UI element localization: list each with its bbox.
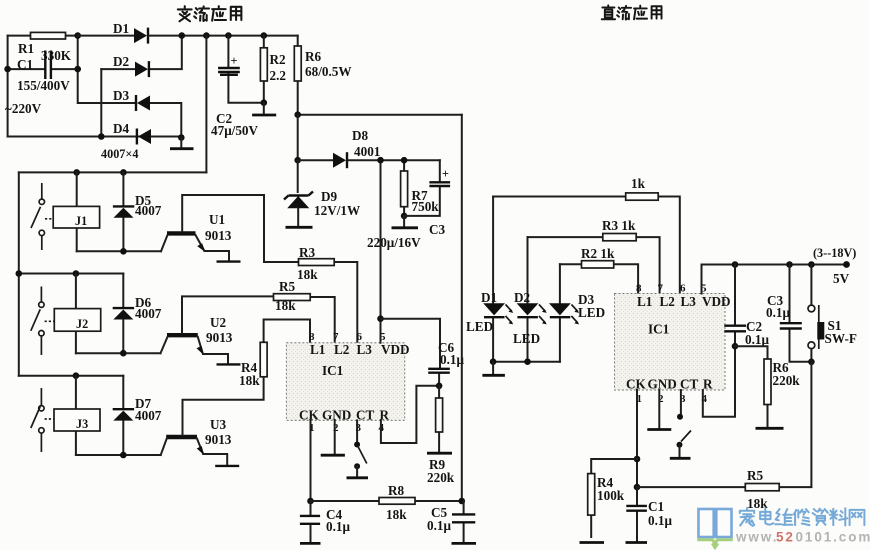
capacitor C5: [427, 501, 475, 542]
svg-text:C1: C1: [648, 499, 664, 514]
wire right vertical (left circuit): [461, 115, 463, 501]
wire J1 row base line: [77, 250, 161, 252]
wire node A vertical (R1/C1 right to D3 row): [78, 36, 135, 103]
svg-text:4007: 4007: [135, 408, 162, 423]
svg-text:220k: 220k: [773, 373, 801, 388]
wire bottom input row to D4: [8, 136, 136, 138]
svg-text:U2: U2: [210, 315, 227, 330]
ground (R2/C2): [252, 99, 276, 115]
resistor R1: [8, 32, 78, 63]
svg-text:9013: 9013: [206, 330, 233, 345]
ground (R9): [427, 452, 452, 455]
svg-text:5V: 5V: [833, 271, 850, 286]
wire relay rail 2: [19, 273, 124, 275]
svg-text:J2: J2: [76, 317, 88, 331]
resistor R2 1k (right): [560, 246, 638, 294]
svg-text:4001: 4001: [354, 144, 380, 159]
ground (R4 right): [580, 541, 605, 544]
resistor R3: [297, 245, 357, 343]
svg-text:CK: CK: [299, 408, 320, 423]
svg-text:750k: 750k: [412, 199, 440, 214]
svg-text:IC1: IC1: [322, 363, 343, 378]
svg-text:D1: D1: [113, 21, 129, 36]
capacitor C4: [300, 501, 351, 542]
svg-text:R: R: [703, 377, 713, 392]
svg-text:D9: D9: [321, 189, 338, 204]
switch S1 SW-F: [808, 265, 857, 362]
svg-text:R1: R1: [18, 41, 34, 56]
resistor 1k (top, D1 to L3): [493, 176, 680, 294]
LED D2 (right): [513, 237, 547, 362]
resistor R4: [239, 320, 310, 389]
svg-text:L3: L3: [357, 342, 373, 357]
svg-text:+: +: [442, 167, 449, 181]
svg-text:LED: LED: [578, 305, 605, 320]
svg-text:0.1μ: 0.1μ: [427, 518, 451, 533]
svg-text:J3: J3: [76, 417, 88, 431]
watermark url www.520101.com: [735, 530, 870, 545]
wire relay rail 3: [19, 375, 124, 377]
LED D3 (right): [549, 264, 605, 361]
svg-text:CT: CT: [680, 377, 699, 392]
wire left input vertical: [7, 36, 9, 137]
svg-text:R5: R5: [279, 279, 296, 294]
diode D6: [113, 274, 162, 354]
wire pin 4 R loop (left IC): [381, 386, 439, 443]
transistor U2: [161, 296, 274, 364]
svg-text:IC1: IC1: [648, 322, 669, 337]
svg-text:R2: R2: [270, 52, 287, 67]
watermark text 家电维修资料网: [740, 508, 865, 526]
title AC application 交流应用: [178, 6, 242, 21]
svg-text:12V/1W: 12V/1W: [314, 203, 360, 218]
capacitor C2 electrolytic: [211, 36, 264, 138]
svg-text:0101.com: 0101.com: [796, 530, 870, 545]
svg-text:R3: R3: [299, 245, 316, 260]
diode D2: [101, 36, 182, 78]
svg-text:4007: 4007: [135, 203, 162, 218]
svg-text:R5: R5: [747, 468, 764, 483]
svg-text:L2: L2: [334, 342, 350, 357]
svg-text:0.1μ: 0.1μ: [326, 519, 350, 534]
svg-text:(3--18V): (3--18V): [813, 246, 856, 260]
svg-text:6: 6: [680, 283, 686, 295]
ground (R7): [392, 213, 419, 228]
resistor R4 100k (right): [588, 459, 637, 537]
svg-text:LED: LED: [466, 319, 493, 334]
title DC application 直流应用: [602, 5, 662, 19]
svg-text:D8: D8: [352, 128, 369, 143]
svg-text:9013: 9013: [205, 432, 232, 447]
wire pin 1 CK down (left IC): [310, 420, 312, 501]
switch contact pin3 CT (left IC): [347, 420, 369, 477]
diode D1: [78, 21, 148, 44]
wire top rail: [149, 35, 298, 37]
node (3--18V) terminal: [813, 246, 856, 286]
transistor U1: [161, 195, 299, 262]
svg-text:www.: www.: [735, 530, 778, 545]
resistor R9: [427, 386, 455, 485]
svg-text:2.2: 2.2: [270, 68, 287, 83]
svg-text:VDD: VDD: [702, 294, 731, 309]
transistor U3: [161, 377, 264, 466]
capacitor C2 (right): [724, 265, 769, 348]
svg-text:68/0.5W: 68/0.5W: [305, 64, 352, 79]
svg-text:18k: 18k: [239, 373, 260, 388]
capacitor C1 (right): [626, 487, 672, 541]
switch contact J1: [31, 183, 54, 250]
svg-text:R3 1k: R3 1k: [602, 218, 636, 233]
svg-text:U3: U3: [210, 417, 227, 432]
svg-text:R2 1k: R2 1k: [581, 246, 615, 261]
svg-text:C1: C1: [17, 57, 33, 72]
wire pin 1 CK down (right IC): [636, 390, 638, 505]
capacitor C6: [381, 319, 465, 386]
zener D9: [284, 160, 360, 227]
svg-text:52: 52: [776, 530, 795, 545]
svg-text:0.1μ: 0.1μ: [745, 332, 769, 347]
wire pin 4 R loop (right IC): [703, 346, 735, 417]
capacitor C3 (right): [766, 265, 811, 362]
resistor R7: [401, 157, 440, 216]
wire VDD pin5 (right IC): [701, 265, 703, 294]
svg-text:100k: 100k: [597, 488, 625, 503]
diode D5: [113, 172, 162, 251]
svg-text:0.1μ: 0.1μ: [766, 305, 790, 320]
svg-text:18k: 18k: [386, 507, 407, 522]
ground (C4): [300, 542, 321, 545]
ground (C5): [452, 542, 477, 545]
ground (LED bus): [482, 362, 505, 376]
node A junctions: [74, 32, 81, 39]
switch contact pin3 CT (right IC): [670, 390, 691, 458]
LED D1 (right): [466, 197, 513, 362]
resistor R6: [294, 36, 351, 115]
diode D7: [113, 376, 162, 455]
watermark book icon: [697, 509, 733, 548]
diode D3: [113, 88, 181, 138]
svg-text:C3: C3: [429, 222, 446, 237]
resistor R5: [274, 279, 335, 343]
op-amp U2 IC1 box (right): [615, 283, 731, 406]
resistor R6 (right): [735, 346, 800, 427]
svg-text:D1: D1: [481, 290, 497, 305]
op-amp U1 IC1 box (left): [286, 331, 409, 434]
svg-text:0.1μ: 0.1μ: [648, 513, 672, 528]
svg-text:L2: L2: [660, 294, 676, 309]
svg-text:R6: R6: [305, 49, 322, 64]
wire node B vertical (D2 anode to D4 row): [100, 69, 102, 136]
svg-text:18k: 18k: [297, 267, 318, 282]
switch contact J2: [31, 287, 54, 356]
wire VDD pin 5 (left IC): [380, 160, 382, 343]
svg-text:220k: 220k: [427, 470, 455, 485]
wire supply rail (right): [702, 264, 847, 266]
svg-text:J1: J1: [75, 214, 87, 228]
resistor R2: [260, 36, 286, 103]
ground (R6 right): [756, 427, 784, 430]
svg-text:R8: R8: [388, 483, 405, 498]
capacitor C1: [5, 51, 78, 117]
svg-text:D2: D2: [514, 290, 531, 305]
svg-text:+: +: [231, 54, 238, 68]
svg-text:~220V: ~220V: [5, 101, 42, 116]
ground (bridge D3/D4): [170, 134, 194, 149]
svg-text:8: 8: [636, 283, 642, 295]
svg-text:7: 7: [658, 283, 664, 295]
svg-text:1k: 1k: [631, 176, 646, 191]
svg-text:47μ/50V: 47μ/50V: [211, 123, 259, 138]
capacitor C3 electrolytic: [367, 160, 450, 250]
svg-text:VDD: VDD: [381, 342, 410, 357]
wire D8 node vertical: [297, 115, 299, 161]
resistor R5 18k (right): [637, 468, 811, 511]
svg-text:L3: L3: [681, 294, 697, 309]
wire J2 row base line: [76, 352, 161, 354]
svg-text:D3: D3: [113, 88, 130, 103]
relay J3: [54, 376, 100, 455]
switch contact J3: [31, 388, 54, 452]
diode D4: [101, 121, 181, 161]
wire bridge output vertical to relay rail: [205, 36, 207, 173]
relay J2: [54, 274, 100, 354]
wire J3 row base line: [76, 454, 161, 456]
wire pin 2 GND + ground (right IC): [647, 390, 671, 430]
svg-text:4007: 4007: [135, 306, 162, 321]
svg-text:18k: 18k: [275, 298, 296, 313]
svg-text:220μ/16V: 220μ/16V: [367, 235, 421, 250]
resistor R3 1k (right): [528, 218, 660, 294]
diode D8: [298, 128, 440, 168]
ground (C1 right): [626, 541, 648, 544]
svg-text:CT: CT: [356, 408, 375, 423]
svg-text:4007×4: 4007×4: [101, 147, 138, 161]
wire LED cathode bus: [493, 361, 560, 363]
resistor R8: [311, 483, 462, 522]
svg-text:LED: LED: [513, 331, 540, 346]
wire S1/C3 node down to R5: [810, 362, 812, 487]
svg-text:GND: GND: [648, 377, 677, 392]
wire pin 2 GND + ground (left IC): [321, 420, 345, 455]
svg-text:GND: GND: [322, 408, 351, 423]
svg-text:D4: D4: [113, 121, 130, 136]
wire relay rail 1: [19, 171, 207, 173]
svg-text:L1: L1: [310, 342, 325, 357]
svg-text:L1: L1: [637, 294, 652, 309]
wire R6 bottom to right vertical: [298, 114, 462, 116]
svg-text:9013: 9013: [205, 228, 232, 243]
svg-text:D2: D2: [113, 54, 130, 69]
svg-text:155/400V: 155/400V: [17, 78, 70, 93]
svg-text:U1: U1: [209, 212, 225, 227]
svg-text:SW-F: SW-F: [825, 331, 857, 346]
wire relay left vertical: [18, 172, 20, 375]
relay J1: [53, 172, 99, 251]
